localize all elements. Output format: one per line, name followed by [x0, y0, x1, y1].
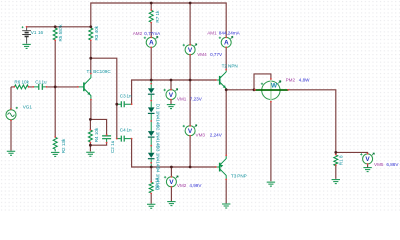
junction battery rail R3: [89, 25, 92, 28]
svg-text:V: V: [188, 128, 193, 135]
ground PM2: [267, 182, 275, 186]
junction R4 C2 bottom: [89, 144, 92, 147]
transistor T1 BC109C: [78, 69, 111, 100]
capacitor C3 1n: [117, 93, 132, 107]
junction hook: [253, 88, 256, 91]
diode D3 1N4148: [148, 131, 161, 169]
voltmeter VM3: [183, 125, 223, 138]
svg-text:0,77mA: 0,77mA: [144, 31, 161, 36]
junction emitter node: [89, 118, 92, 121]
svg-text:V116: V116: [31, 30, 44, 35]
wire R5 to base node to R2: [54, 40, 56, 137]
junction output node: [225, 88, 228, 91]
wire battery bottom: [26, 37, 28, 44]
junction top rail R7: [150, 2, 153, 5]
resistor R7 1k: [149, 10, 160, 23]
svg-text:T2NPN: T2NPN: [222, 64, 238, 69]
svg-text:R4 10k: R4 10k: [94, 127, 99, 142]
svg-text:AM2: AM2: [133, 31, 143, 36]
svg-text:R5 587k: R5 587k: [58, 24, 63, 42]
wire T1 emitter node: [90, 100, 106, 152]
svg-text:VM3: VM3: [196, 133, 206, 138]
resistor R1 8: [334, 155, 344, 166]
wattmeter PM2: [255, 77, 310, 101]
svg-text:VM1: VM1: [177, 96, 187, 101]
svg-text:PM2: PM2: [286, 77, 296, 82]
svg-text:C31n: C31n: [120, 93, 132, 98]
generator VG1: [6, 104, 32, 119]
wire AM1 to T2 collector: [225, 47, 227, 69]
svg-text:VM5: VM5: [374, 162, 384, 167]
ground R1: [332, 180, 340, 184]
wire R3 bottom to collector: [90, 40, 92, 58]
terminal marks: [10, 9, 369, 194]
svg-text:C2 1u: C2 1u: [110, 140, 115, 153]
resistor R5 587k: [53, 24, 63, 42]
junction load node: [334, 151, 337, 154]
capacitor C4 1n: [117, 128, 132, 142]
resistor R2 13k: [53, 137, 66, 153]
junction mid rail VM1: [170, 79, 173, 82]
svg-text:R2 13k: R2 13k: [61, 138, 66, 153]
junction bottom rail VM3: [189, 166, 192, 169]
junction bottom rail diodes: [150, 166, 153, 169]
resistor R8 10: [149, 177, 160, 193]
svg-text:C11u: C11u: [35, 79, 47, 84]
wire input base: [11, 86, 78, 88]
svg-text:R1 8: R1 8: [339, 155, 344, 165]
svg-text:W: W: [271, 83, 278, 90]
svg-text:4,99V: 4,99V: [189, 183, 202, 188]
wire bottom rail to T3 base: [132, 139, 216, 167]
transistor T3 PNP: [216, 155, 247, 179]
wire top supply rail: [91, 3, 226, 38]
resistor R6 10k: [14, 79, 29, 89]
wire collector node to C3 C4 left: [91, 58, 117, 138]
junction battery rail R5: [54, 25, 57, 28]
wire output to load: [288, 90, 367, 154]
ammeter AM1: [207, 31, 240, 48]
resistor R3 40k: [89, 25, 99, 40]
junction mid rail VM3: [189, 79, 192, 82]
transistor T2 NPN: [216, 64, 238, 90]
wire mid rail to T2 base: [132, 80, 216, 104]
svg-text:V: V: [169, 92, 174, 99]
junction mid rail diodes: [150, 79, 153, 82]
voltmeter VM4: [183, 44, 223, 57]
voltmeter VM2: [164, 176, 202, 188]
svg-text:V: V: [188, 47, 193, 54]
junction collector node: [89, 57, 92, 60]
wire VM2 drop: [170, 167, 172, 201]
wire VM5 bottom: [367, 164, 369, 168]
junction top rail VM4: [189, 2, 192, 5]
junction base node: [54, 86, 57, 89]
wire output node: [226, 90, 255, 155]
ground VG1: [7, 151, 15, 155]
ground T3: [222, 204, 230, 208]
capacitor C2 1u: [102, 136, 115, 153]
resistor R4 10k: [88, 127, 99, 142]
wire R1 leads: [335, 152, 337, 179]
svg-text:R610k: R610k: [14, 79, 29, 84]
wire battery top rail: [27, 26, 91, 28]
svg-text:R8 10: R8 10: [155, 177, 160, 190]
ammeter AM2: [133, 31, 161, 48]
capacitor C1 1u: [33, 79, 47, 90]
diode D1 1N4148: [148, 80, 161, 127]
wire VM1 drop: [170, 80, 172, 104]
svg-text:R3 40k: R3 40k: [94, 25, 99, 40]
svg-text:7,23V: 7,23V: [190, 96, 203, 101]
ground VM5: [363, 168, 371, 172]
diode D2 1N4148: [148, 107, 161, 148]
svg-text:V: V: [169, 179, 174, 186]
voltmeter VM5: [360, 153, 399, 167]
svg-text:VG1: VG1: [23, 104, 33, 109]
ground R8: [147, 204, 155, 208]
svg-text:4,8W: 4,8W: [299, 77, 310, 82]
wire R7 AM2 branch: [150, 3, 152, 80]
svg-text:A: A: [224, 40, 229, 47]
wire wattmeter to ground: [270, 100, 272, 182]
ground R4 C2: [86, 152, 94, 156]
svg-text:844,24mA: 844,24mA: [219, 31, 241, 36]
svg-text:2,24V: 2,24V: [210, 133, 223, 138]
wire R8 leads: [150, 167, 152, 204]
ground battery: [22, 44, 30, 48]
voltmeter VM1: [164, 89, 203, 102]
svg-text:VM4: VM4: [197, 52, 207, 57]
svg-text:0,77V: 0,77V: [210, 52, 223, 57]
junction C3 left: [115, 103, 118, 106]
svg-text:C41n: C41n: [120, 128, 132, 133]
ground R2: [51, 152, 59, 156]
wire T3 collector to ground: [225, 179, 227, 203]
svg-text:6,86V: 6,86V: [386, 162, 399, 167]
ground VM2: [167, 202, 175, 206]
svg-text:AM1: AM1: [207, 31, 217, 36]
diode D4 1N4148: [148, 153, 161, 191]
svg-text:T3PNP: T3PNP: [231, 174, 247, 179]
svg-text:R7 1k: R7 1k: [155, 10, 160, 23]
svg-text:VM2: VM2: [177, 183, 187, 188]
svg-text:A: A: [149, 40, 154, 47]
ground VM1: [167, 105, 175, 109]
junction bottom rail VM2: [170, 166, 173, 169]
svg-text:V: V: [365, 156, 370, 163]
wire VM4 VM3 branch: [189, 3, 191, 167]
battery V1 16: [22, 26, 44, 36]
wire VG1 vertical: [10, 87, 12, 151]
wire wattmeter hook: [254, 74, 271, 90]
